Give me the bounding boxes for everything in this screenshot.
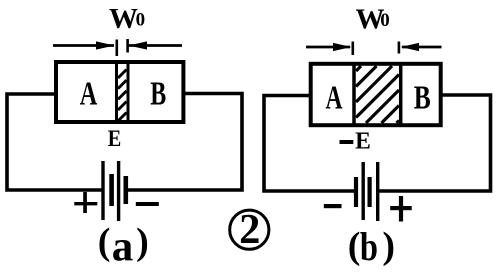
svg-text:): ) [382,225,395,267]
svg-text:a: a [112,224,134,271]
box (a) [56,62,183,122]
svg-text:0: 0 [136,10,146,31]
depletion strip right border (b) [399,63,403,126]
minus sign (b) [324,204,342,208]
battery (b) plate 4 long [376,162,379,221]
minus sign (a) [136,202,159,206]
depletion strip left border (a) [115,61,118,123]
plus sign (b) [390,196,412,222]
label W0 (b) [356,4,390,36]
battery (a) plate 3 long [117,161,120,221]
label (b) [348,224,395,269]
wire right (b) [378,95,491,191]
wire right (a) [128,94,242,191]
dimension line left (a) [53,41,115,49]
svg-text:B: B [414,80,431,117]
wire left (a) [7,94,102,190]
wire left (b) [264,96,355,192]
depletion strip right border (a) [127,61,130,123]
tick left (b) [351,42,354,56]
plus sign (a) [74,192,97,213]
svg-text:b: b [360,224,378,269]
battery (b) plate 3 short [368,177,372,207]
svg-text:0: 0 [380,10,390,31]
label W0 (a) [109,3,145,35]
svg-text:E: E [108,126,122,151]
svg-text:E: E [355,129,371,155]
box (b) [311,64,441,125]
depletion strip left border (b) [352,63,356,126]
dimension line right (b) [401,43,442,51]
battery (b) plate 1 short [354,177,358,207]
dimension line left (b) [306,43,352,51]
tick right (b) [398,42,401,54]
depletion strip hatching (b) [356,66,399,123]
battery (a) plate 1 long [101,161,104,220]
battery (b) plate 2 long [362,162,365,220]
battery (a) plate 2 short [109,174,114,206]
dimension line right (a) [129,41,183,49]
svg-text:(: ( [348,225,361,267]
svg-text:A: A [80,76,98,113]
figure number 2 circle [230,210,269,249]
depletion strip hatching (a) [118,70,127,122]
tick right (a) [126,39,129,53]
svg-text:): ) [136,221,149,263]
svg-text:2: 2 [239,206,260,253]
svg-text:A: A [326,80,343,117]
minus of -E label (b) [340,140,354,144]
tick left (a) [116,40,119,57]
battery (a) plate 4 short [124,176,129,204]
svg-text:W: W [109,3,138,35]
label (a) [98,221,149,271]
svg-text:B: B [150,76,166,113]
svg-text:(: ( [98,221,111,263]
